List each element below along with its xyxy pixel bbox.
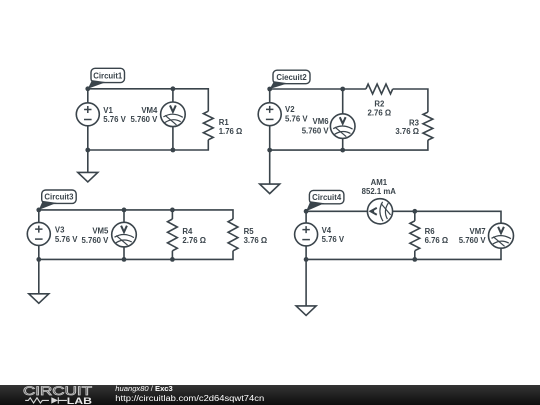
svg-text:5.76 V: 5.76 V xyxy=(103,115,126,124)
svg-text:Ciecuit2: Ciecuit2 xyxy=(276,73,307,82)
svg-text:6.76 Ω: 6.76 Ω xyxy=(425,236,449,245)
svg-text:V3: V3 xyxy=(55,226,65,235)
svg-text:VM4: VM4 xyxy=(141,106,158,115)
svg-text:5.76 V: 5.76 V xyxy=(322,235,345,244)
svg-text:LAB: LAB xyxy=(67,396,93,405)
svg-text:Circuit1: Circuit1 xyxy=(93,71,123,80)
svg-text:5.760 V: 5.760 V xyxy=(82,236,110,245)
svg-text:Circuit3: Circuit3 xyxy=(44,193,74,202)
svg-text:VM5: VM5 xyxy=(92,226,109,235)
svg-text:R2: R2 xyxy=(374,99,385,108)
svg-text:VM6: VM6 xyxy=(313,117,330,126)
svg-text:2.76 Ω: 2.76 Ω xyxy=(368,109,392,118)
svg-text:852.1 mA: 852.1 mA xyxy=(362,187,397,196)
svg-text:1.76 Ω: 1.76 Ω xyxy=(219,127,243,136)
svg-text:3.76 Ω: 3.76 Ω xyxy=(244,236,268,245)
svg-text:2.76 Ω: 2.76 Ω xyxy=(182,236,206,245)
svg-text:Circuit4: Circuit4 xyxy=(312,193,342,202)
svg-text:V4: V4 xyxy=(322,226,332,235)
svg-text:5.760 V: 5.760 V xyxy=(302,127,330,136)
svg-text:R6: R6 xyxy=(425,227,436,236)
svg-text:V1: V1 xyxy=(103,106,113,115)
svg-text:AM1: AM1 xyxy=(371,178,388,187)
svg-text:huangx80 / Exc3: huangx80 / Exc3 xyxy=(115,384,172,393)
svg-text:http://circuitlab.com/c2d64sqw: http://circuitlab.com/c2d64sqwt74cn xyxy=(115,394,264,403)
svg-text:R5: R5 xyxy=(244,227,255,236)
svg-text:V2: V2 xyxy=(285,105,295,114)
svg-text:5.76 V: 5.76 V xyxy=(285,114,308,123)
svg-text:5.760 V: 5.760 V xyxy=(131,115,159,124)
svg-text:3.76 Ω: 3.76 Ω xyxy=(395,127,419,136)
svg-text:VM7: VM7 xyxy=(470,227,486,236)
svg-text:R3: R3 xyxy=(409,118,420,127)
svg-text:5.760 V: 5.760 V xyxy=(459,236,487,245)
svg-text:R4: R4 xyxy=(182,227,193,236)
svg-text:5.76 V: 5.76 V xyxy=(55,235,78,244)
svg-text:R1: R1 xyxy=(219,118,230,127)
